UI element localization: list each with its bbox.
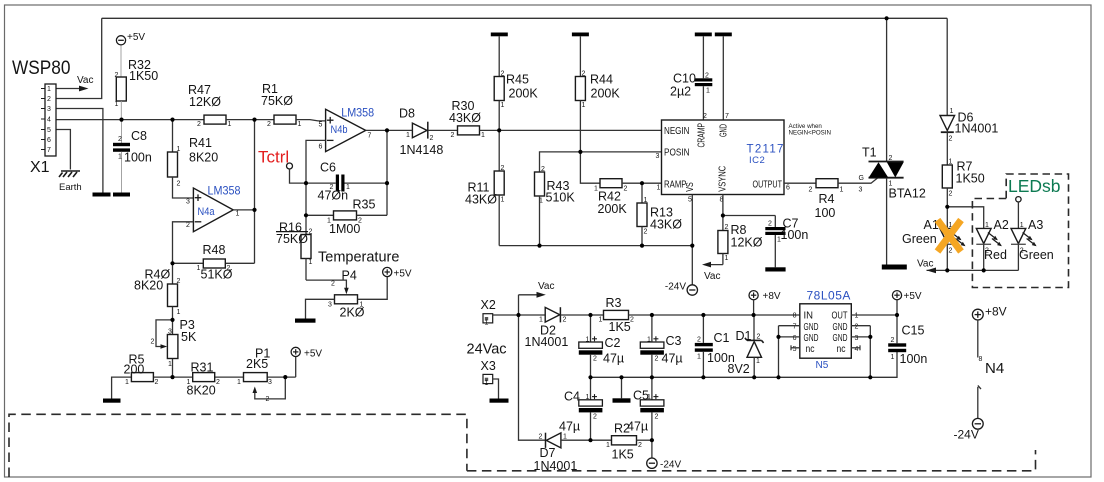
svg-text:1: 1	[586, 337, 590, 344]
wire bottom mid row	[499, 245, 692, 247]
svg-text:2: 2	[118, 136, 122, 143]
svg-text:-24V: -24V	[665, 282, 686, 293]
svg-text:LEDsb: LEDsb	[1008, 176, 1061, 196]
dashed box bottom left	[9, 414, 467, 477]
svg-text:5: 5	[319, 122, 323, 129]
svg-text:R3: R3	[606, 296, 622, 310]
supply -24V circle bottom	[647, 440, 682, 470]
svg-text:2: 2	[582, 71, 586, 78]
svg-text:1K5: 1K5	[609, 320, 631, 334]
capacitor C2	[579, 315, 624, 377]
wire top rail	[102, 17, 948, 19]
svg-text:1: 1	[891, 354, 895, 361]
svg-text:200: 200	[124, 363, 145, 377]
svg-text:1: 1	[47, 86, 51, 93]
svg-text:2: 2	[889, 155, 893, 162]
svg-text:8V2: 8V2	[728, 362, 750, 376]
wire C6 node to R35 row	[305, 183, 307, 234]
capacitor C1	[695, 315, 735, 377]
wire output feedback riser	[386, 130, 388, 215]
svg-text:47µ: 47µ	[627, 420, 648, 434]
svg-text:Tctrl: Tctrl	[258, 148, 289, 167]
svg-text:-24V: -24V	[954, 428, 979, 442]
svg-text:75KØ: 75KØ	[261, 94, 293, 108]
svg-text:N5: N5	[816, 360, 829, 371]
svg-text:2: 2	[757, 334, 761, 341]
svg-text:3: 3	[168, 329, 172, 336]
diode D6	[940, 108, 998, 165]
svg-text:2: 2	[151, 339, 155, 346]
supply bar R45	[491, 33, 508, 37]
svg-text:1: 1	[539, 317, 543, 324]
svg-text:7: 7	[47, 147, 51, 154]
svg-text:1: 1	[485, 380, 489, 387]
svg-text:1: 1	[777, 237, 781, 244]
svg-text:Vac: Vac	[917, 259, 934, 270]
svg-text:2: 2	[266, 396, 270, 403]
dashed box PSU bottom	[467, 450, 1036, 471]
svg-text:Earth: Earth	[59, 182, 82, 193]
svg-text:1: 1	[725, 255, 729, 262]
supply bar R44	[572, 33, 589, 37]
resistor R16	[276, 221, 313, 281]
svg-text:7: 7	[368, 133, 372, 140]
svg-text:1: 1	[177, 309, 181, 316]
svg-text:7: 7	[793, 324, 797, 331]
svg-text:2: 2	[430, 135, 434, 142]
capacitor C10	[670, 33, 712, 121]
svg-text:5: 5	[688, 197, 692, 204]
svg-text:GND: GND	[833, 322, 848, 333]
supply +8V circle N4	[972, 305, 1006, 321]
svg-text:2: 2	[115, 72, 119, 79]
capacitor C7	[723, 216, 808, 268]
svg-text:43KØ: 43KØ	[650, 218, 682, 232]
svg-text:510K: 510K	[546, 191, 576, 205]
svg-text:A2: A2	[994, 218, 1009, 232]
wire X1 pin4 main	[56, 119, 204, 121]
svg-text:2: 2	[563, 317, 567, 324]
svg-text:1: 1	[657, 185, 661, 192]
svg-text:C10: C10	[673, 72, 696, 86]
wire P4 left to ground	[306, 299, 335, 318]
wire 0V mid rail	[591, 352, 898, 378]
svg-text:+8V: +8V	[985, 305, 1007, 319]
wire OUT to +5V	[851, 314, 897, 316]
svg-text:1: 1	[756, 358, 760, 365]
svg-text:2: 2	[1020, 248, 1024, 255]
svg-text:D8: D8	[399, 107, 415, 121]
pad X3	[481, 359, 499, 399]
capacitor C5	[627, 377, 664, 440]
svg-text:2: 2	[47, 96, 51, 103]
orange X over A1	[938, 220, 962, 252]
resistor R44	[575, 36, 620, 152]
svg-text:3: 3	[268, 379, 272, 386]
svg-text:43KØ: 43KØ	[465, 193, 497, 207]
svg-text:1: 1	[360, 302, 364, 309]
svg-text:C6: C6	[320, 161, 336, 175]
potentiometer P1	[237, 347, 285, 404]
svg-text:D1: D1	[736, 329, 752, 343]
svg-text:4: 4	[855, 346, 859, 353]
svg-text:24Vac: 24Vac	[467, 342, 507, 358]
svg-text:POSIN: POSIN	[664, 148, 690, 159]
resistor R13	[637, 183, 682, 245]
svg-text:RAMP: RAMP	[664, 179, 687, 190]
svg-text:2: 2	[197, 121, 201, 128]
svg-text:1: 1	[298, 121, 302, 128]
svg-text:4: 4	[47, 117, 51, 124]
ground bar pins 2-3	[93, 193, 111, 197]
svg-text:1: 1	[644, 197, 648, 204]
svg-text:1: 1	[327, 218, 331, 225]
svg-text:X3: X3	[481, 359, 496, 373]
IC T2117 box	[656, 113, 791, 204]
svg-text:Green: Green	[1019, 248, 1054, 262]
wire bottom row left	[112, 377, 296, 398]
resistor R7	[942, 159, 984, 229]
svg-text:R45: R45	[506, 73, 529, 87]
svg-text:1: 1	[950, 108, 954, 115]
svg-text:1: 1	[118, 154, 122, 161]
svg-text:1K50: 1K50	[129, 69, 158, 83]
net arrow Vac R8	[702, 262, 723, 282]
capacitor C4	[559, 377, 602, 440]
resistor R40	[134, 263, 181, 377]
wire R47 to R1	[226, 119, 274, 121]
wire R41 to N4a pin3	[173, 177, 194, 198]
svg-text:200K: 200K	[591, 87, 621, 101]
svg-text:C1: C1	[714, 331, 730, 345]
svg-text:WSP80: WSP80	[12, 58, 71, 79]
svg-text:47µ: 47µ	[662, 352, 683, 366]
svg-text:R2: R2	[614, 422, 630, 436]
svg-text:C4: C4	[564, 390, 580, 404]
svg-text:43KØ: 43KØ	[449, 111, 481, 125]
svg-text:nc: nc	[806, 344, 815, 355]
svg-text:GND: GND	[804, 322, 819, 333]
resistor R5	[124, 353, 159, 387]
svg-text:1: 1	[855, 313, 859, 320]
svg-text:2: 2	[309, 229, 313, 236]
svg-text:2: 2	[949, 191, 953, 198]
svg-text:2: 2	[949, 248, 953, 255]
svg-text:1: 1	[187, 379, 191, 386]
wire N4b pin6	[306, 140, 326, 183]
capacitor C8	[113, 120, 152, 193]
svg-text:2: 2	[768, 221, 772, 228]
svg-text:8K20: 8K20	[189, 151, 218, 165]
potentiometer P4	[306, 269, 365, 320]
wire R30 to NEGIN	[480, 129, 662, 131]
svg-text:200K: 200K	[598, 202, 628, 216]
svg-text:6: 6	[319, 144, 323, 151]
svg-text:1: 1	[236, 211, 240, 218]
svg-text:7: 7	[725, 113, 729, 120]
svg-text:1: 1	[309, 259, 313, 266]
svg-text:1: 1	[599, 317, 603, 324]
svg-text:2: 2	[985, 248, 989, 255]
ground bar R5	[103, 399, 121, 403]
wire X1 pin3 to ground	[56, 109, 103, 193]
resistor R2	[606, 422, 652, 462]
svg-text:1: 1	[501, 197, 505, 204]
wire X2 drop to D7 row	[519, 295, 546, 440]
op-amp N4a	[186, 184, 241, 232]
resistor R43	[535, 166, 576, 246]
net arrow Vac X2	[519, 281, 555, 298]
svg-text:-24V: -24V	[660, 460, 681, 471]
svg-text:2: 2	[703, 113, 707, 120]
wire R48 row	[173, 262, 255, 264]
wire OUTPUT to R4	[784, 182, 816, 184]
wire N4a output	[233, 209, 254, 211]
dashed box LEDsb	[972, 174, 1068, 288]
svg-text:NEGIN<POSIN: NEGIN<POSIN	[789, 130, 831, 137]
svg-text:Vac: Vac	[77, 75, 94, 86]
svg-text:GND: GND	[804, 333, 819, 344]
zener diode D1	[728, 315, 764, 377]
svg-text:LM358: LM358	[208, 184, 241, 198]
svg-text:T1: T1	[862, 146, 877, 160]
svg-text:2: 2	[541, 166, 545, 173]
svg-text:2: 2	[177, 278, 181, 285]
svg-text:R4: R4	[819, 192, 835, 206]
svg-text:P4: P4	[342, 269, 357, 283]
capacitor C15	[888, 315, 927, 366]
svg-text:1N4001: 1N4001	[955, 122, 999, 136]
svg-text:1: 1	[168, 361, 172, 368]
svg-text:2: 2	[451, 132, 455, 139]
svg-text:2: 2	[267, 121, 271, 128]
svg-text:6: 6	[786, 185, 790, 192]
resistor R30	[449, 99, 485, 139]
svg-text:2: 2	[809, 187, 813, 194]
supply +8V circle	[749, 291, 781, 315]
svg-text:Vac: Vac	[704, 271, 721, 282]
svg-text:1: 1	[840, 187, 844, 194]
svg-text:6: 6	[47, 137, 51, 144]
svg-text:A3: A3	[1028, 218, 1043, 232]
svg-text:2: 2	[177, 181, 181, 188]
svg-text:+5V: +5V	[127, 32, 145, 43]
wire VSYNC drop	[722, 195, 724, 231]
svg-text:R41: R41	[189, 136, 212, 150]
wire R4 to gate	[838, 178, 878, 184]
net arrow Vac LEDs	[917, 259, 1018, 274]
opamp supply pins N4	[978, 320, 1004, 418]
svg-text:8: 8	[979, 356, 983, 363]
svg-text:1: 1	[406, 132, 410, 139]
svg-text:2: 2	[501, 71, 505, 78]
svg-text:6: 6	[793, 335, 797, 342]
svg-text:47µ: 47µ	[559, 420, 580, 434]
supply -24V circle VS	[665, 282, 698, 296]
svg-text:C2: C2	[605, 336, 621, 350]
svg-text:N4: N4	[985, 360, 1004, 377]
capacitor C6	[306, 161, 387, 203]
svg-text:GND: GND	[833, 333, 848, 344]
svg-text:A1: A1	[924, 218, 939, 232]
svg-text:1: 1	[197, 265, 201, 272]
pad X2	[481, 298, 496, 327]
earth ground symbol	[59, 171, 80, 177]
resistor R1	[261, 82, 302, 128]
svg-text:75KØ: 75KØ	[276, 232, 308, 246]
svg-text:VSYNC: VSYNC	[718, 166, 729, 192]
wire GND pin7 drop	[715, 33, 732, 121]
svg-text:Vac: Vac	[538, 281, 555, 292]
svg-text:D7: D7	[540, 446, 556, 460]
svg-text:1: 1	[228, 121, 232, 128]
svg-text:2: 2	[655, 414, 659, 421]
svg-text:2: 2	[539, 434, 543, 441]
wire +8V rail	[652, 314, 800, 316]
svg-text:5: 5	[47, 127, 51, 134]
svg-text:1: 1	[501, 102, 505, 109]
svg-text:1: 1	[563, 434, 567, 441]
wire X1 pin2 riser to rail	[56, 18, 102, 98]
svg-text:2µ2: 2µ2	[670, 85, 691, 99]
svg-text:1: 1	[697, 354, 701, 361]
svg-text:+5V: +5V	[394, 269, 412, 280]
svg-text:IC2: IC2	[749, 155, 765, 166]
svg-text:2: 2	[855, 324, 859, 331]
resistor R3	[599, 296, 652, 334]
svg-text:OUT: OUT	[832, 311, 848, 322]
svg-text:2: 2	[705, 73, 709, 80]
wire N4b output to junction	[366, 129, 387, 131]
supply +5V circle out	[892, 291, 922, 315]
resistor R48	[197, 243, 233, 282]
svg-text:2: 2	[186, 222, 190, 229]
LED A2	[976, 218, 1009, 270]
resistor R41	[168, 136, 219, 188]
svg-text:VS: VS	[685, 182, 696, 192]
svg-text:1: 1	[237, 379, 241, 386]
svg-text:5K: 5K	[181, 330, 197, 344]
svg-text:1: 1	[485, 320, 489, 327]
supply bar T1	[882, 265, 907, 270]
svg-text:3: 3	[656, 153, 660, 160]
svg-text:C15: C15	[902, 324, 925, 338]
potentiometer P3	[151, 318, 197, 368]
svg-text:3: 3	[47, 106, 51, 113]
ground bar X3	[490, 399, 509, 403]
LED A1	[902, 218, 966, 270]
svg-text:100n: 100n	[900, 352, 928, 366]
svg-text:5: 5	[793, 346, 797, 353]
svg-text:100n: 100n	[781, 228, 809, 242]
svg-text:1N4001: 1N4001	[534, 459, 578, 473]
svg-text:1N4001: 1N4001	[525, 335, 569, 349]
svg-text:1: 1	[1020, 222, 1024, 229]
wire N4a pin2 feedback	[173, 222, 194, 263]
svg-text:X1: X1	[30, 159, 50, 176]
svg-text:R35: R35	[353, 198, 376, 212]
svg-text:1: 1	[985, 222, 989, 229]
resistor R31	[187, 361, 221, 398]
wire X1 pin1 Vac stub	[56, 88, 84, 90]
svg-text:3: 3	[328, 302, 332, 309]
svg-text:BTA12: BTA12	[889, 187, 926, 201]
resistor R42	[580, 152, 661, 216]
supply +5V circle P4	[358, 267, 412, 299]
resistor R8	[718, 223, 763, 265]
LED A3	[1011, 197, 1054, 271]
wire VS drop to -24V	[691, 195, 693, 285]
resistor R32	[115, 58, 159, 120]
wire A2 branch	[947, 207, 983, 229]
svg-text:N4b: N4b	[331, 124, 348, 136]
svg-text:+5V: +5V	[904, 291, 922, 302]
wire output riser	[254, 120, 256, 264]
node Tctrl terminal	[287, 163, 307, 183]
svg-text:3: 3	[186, 199, 190, 206]
svg-text:1: 1	[889, 181, 893, 188]
diode D2	[525, 307, 591, 349]
svg-text:T2117: T2117	[747, 144, 785, 156]
ground bar C8	[113, 193, 130, 197]
svg-text:2: 2	[638, 442, 642, 449]
IC 78L05A	[779, 289, 871, 378]
svg-text:1: 1	[125, 379, 129, 386]
svg-text:1: 1	[594, 186, 598, 193]
svg-text:GND: GND	[718, 124, 729, 137]
svg-text:R31: R31	[191, 361, 214, 375]
svg-text:3: 3	[855, 335, 859, 342]
resistor R4	[809, 179, 844, 220]
svg-text:2: 2	[644, 229, 648, 236]
svg-text:8: 8	[793, 313, 797, 320]
svg-text:2: 2	[655, 356, 659, 363]
resistor R45	[494, 36, 538, 130]
svg-text:2: 2	[697, 337, 701, 344]
ground bar C7	[765, 267, 785, 271]
svg-text:1: 1	[115, 101, 119, 108]
op-amp N4b	[319, 106, 375, 152]
diode D7	[534, 433, 612, 473]
triac T1	[862, 18, 926, 264]
svg-text:1: 1	[647, 337, 651, 344]
svg-text:1: 1	[582, 102, 586, 109]
wire R41 branch	[172, 120, 174, 152]
svg-text:CRAMP: CRAMP	[697, 123, 708, 148]
wire X2 row	[493, 314, 546, 316]
svg-text:R44: R44	[590, 73, 613, 87]
wire X1 pin5 to earth	[56, 130, 70, 170]
svg-text:1: 1	[346, 184, 350, 191]
resistor R35	[306, 198, 387, 237]
svg-text:2: 2	[330, 184, 334, 191]
wire rail right drop to D6	[946, 18, 948, 115]
svg-text:2: 2	[358, 218, 362, 225]
svg-text:+8V: +8V	[763, 291, 781, 302]
svg-text:2: 2	[216, 379, 220, 386]
svg-text:2: 2	[949, 136, 953, 143]
svg-text:12KØ: 12KØ	[189, 95, 221, 109]
supply +5V circle P1	[291, 347, 322, 377]
svg-text:2: 2	[155, 379, 159, 386]
svg-text:1: 1	[177, 146, 181, 153]
svg-text:1: 1	[586, 394, 590, 401]
svg-text:2: 2	[891, 337, 895, 344]
svg-text:NEGIN: NEGIN	[664, 126, 690, 137]
svg-text:2: 2	[725, 224, 729, 231]
svg-text:C5: C5	[633, 389, 649, 403]
ground stub mid	[621, 377, 623, 398]
